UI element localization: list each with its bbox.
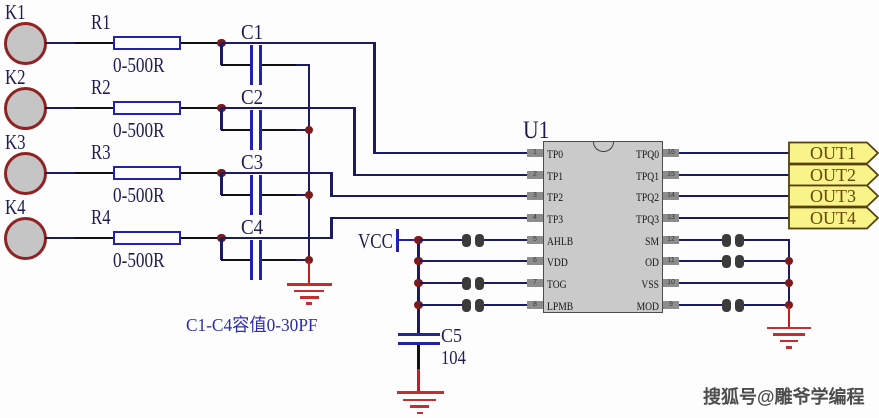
port OUT2: [789, 165, 878, 186]
wire row 4 horizontal: [222, 237, 333, 240]
resistor R1 value 0-500R: [113, 55, 165, 77]
IC U1 pin 6 stub: [527, 257, 543, 265]
wire TOG jumper to pin 7: [484, 282, 528, 285]
wire row 1 horizontal: [222, 42, 376, 45]
IC U1 pin name TP2: [547, 191, 563, 203]
junction C3/ground bus: [305, 191, 314, 200]
IC U1 pin name TP3: [547, 213, 563, 225]
IC U1 pin 5 stub: [527, 236, 543, 244]
resistor R3 value 0-500R: [113, 185, 165, 207]
IC U1 pin 4 stub: [527, 214, 543, 222]
port OUT1: [789, 143, 878, 164]
touch pad K2: [4, 87, 47, 130]
wire junction to C2: [220, 108, 223, 130]
wire K2 to R2: [45, 107, 75, 110]
IC U1 pin name TPQ2: [608, 191, 659, 203]
touch pad K4: [4, 217, 47, 260]
resistor R2 value 0-500R: [113, 120, 165, 142]
wire MOD to jumper: [679, 304, 723, 307]
wire row 3 to pin TP2: [331, 195, 527, 198]
junction VCC/AHLB: [414, 236, 423, 245]
IC U1 designator: [523, 117, 549, 143]
wire row 2 to pin TP1: [355, 174, 528, 177]
capacitor C5: [398, 333, 440, 336]
wire row 2 vertical: [353, 107, 356, 177]
IC U1 pin name VSS: [608, 278, 659, 290]
wire MOD jumper to gnd bus: [744, 304, 790, 307]
IC U1 pin 1 stub: [527, 149, 543, 157]
resistor R4 value 0-500R: [113, 250, 165, 272]
ground symbol GND3 right: [788, 306, 791, 327]
IC U1 pin 3 stub: [527, 192, 543, 200]
capacitor C3 right pin: [262, 194, 296, 197]
IC U1 notch: [593, 142, 614, 152]
power net VCC label: [358, 231, 393, 252]
wire TPQ0 to OUT1: [679, 152, 789, 155]
ground symbol GND2 for C5: [417, 369, 420, 392]
resistor R4 designator: [91, 207, 111, 228]
junction OD/gnd bus: [785, 257, 794, 266]
capacitor C4 right pin: [262, 259, 296, 262]
wire VCC port to bus: [399, 239, 417, 242]
wire VCC to LPMB jumper: [420, 304, 463, 307]
junction VCC/LPMB: [414, 301, 423, 310]
wire TPQ3 to OUT4: [679, 217, 789, 220]
capacitor C1: [250, 45, 253, 85]
capacitor C1 left pin: [221, 64, 251, 67]
touch pad K1: [4, 22, 47, 65]
wire VCC to pin 6 VDD: [420, 260, 528, 263]
svg-text:OUT1: OUT1: [810, 143, 856, 163]
IC U1 pin name AHLB: [547, 235, 573, 247]
wire K1 to R1: [45, 42, 75, 45]
junction node row 2: [217, 104, 226, 113]
capacitor C5 value 104: [441, 348, 466, 368]
wire row 3 vertical: [330, 172, 333, 198]
IC U1 pin 15 stub: [663, 171, 679, 179]
IC U1 pin name TPQ0: [608, 148, 659, 160]
junction C2/ground bus: [305, 126, 314, 135]
junction node row 4: [217, 234, 226, 243]
junction VSS/gnd bus: [785, 279, 794, 288]
wire SM jumper to gnd bus: [744, 239, 790, 242]
wire junction to C1: [220, 43, 223, 65]
resistor R4 right pin: [181, 237, 222, 240]
wire row 2 horizontal: [222, 107, 357, 110]
wire row 1 vertical: [373, 42, 376, 155]
wire C4 to ground bus: [296, 259, 310, 262]
wire C3 to ground bus: [296, 194, 310, 197]
capacitor C3 designator: [241, 152, 263, 173]
jumper J-MOD: [722, 299, 731, 312]
IC U1 pin name LPMB: [547, 300, 573, 312]
jumper J-AHLB: [462, 234, 471, 247]
resistor R1 designator: [91, 12, 111, 33]
resistor R4: [113, 231, 181, 245]
IC U1 pin name TP1: [547, 170, 563, 182]
capacitor C5 designator: [441, 326, 462, 346]
junction C4/ground bus: [305, 256, 314, 265]
wire TPQ2 to OUT3: [679, 195, 789, 198]
touch pad K3: [4, 152, 47, 195]
capacitor C4: [250, 240, 253, 280]
capacitor C2 designator: [241, 87, 263, 108]
IC U1 pin name OD: [608, 256, 659, 268]
jumper J-OD: [722, 255, 731, 268]
IC U1 pin name TPQ3: [608, 213, 659, 225]
capacitor C5 bottom pin: [417, 345, 420, 369]
IC U1 pin name TP0: [547, 148, 563, 160]
wire VCC to TOG jumper: [420, 282, 463, 285]
resistor R2 right pin: [181, 107, 222, 110]
wire row 3 horizontal: [222, 172, 333, 175]
resistor R2: [113, 101, 181, 115]
wire AHLB jumper to pin 5: [484, 239, 528, 242]
resistor R3 left pin: [75, 172, 113, 175]
resistor R1 right pin: [181, 42, 222, 45]
capacitor C3 left pin: [221, 194, 251, 197]
wire row 4 vertical: [330, 217, 333, 240]
wire TPQ1 to OUT2: [679, 174, 789, 177]
capacitor C1 right pin: [262, 64, 296, 67]
ground symbol GND1 for C1-C4: [308, 261, 311, 284]
node K1 label: [5, 2, 26, 23]
junction VCC/TOG: [414, 279, 423, 288]
resistor R2 left pin: [75, 107, 113, 110]
jumper J-SM: [722, 234, 731, 247]
node K2 label: [5, 67, 26, 88]
wire OD to jumper: [679, 260, 723, 263]
wire junction to C3: [220, 173, 223, 195]
wire K4 to R4: [45, 237, 75, 240]
svg-text:OUT4: OUT4: [810, 208, 856, 228]
capacitor C2 left pin: [221, 129, 251, 132]
jumper J-TOG: [462, 277, 471, 290]
VCC bus wire: [417, 240, 420, 334]
port OUT3: [789, 186, 878, 207]
capacitor C1 designator: [241, 22, 263, 43]
right ground bus wire: [788, 240, 791, 306]
resistor R4 left pin: [75, 237, 113, 240]
note C1-C4 capacitance value: [186, 316, 318, 334]
capacitor C4 designator: [241, 217, 263, 238]
IC U1 pin name TPQ1: [608, 170, 659, 182]
wire SM to jumper: [679, 239, 723, 242]
IC U1 pin 12 stub: [663, 236, 679, 244]
capacitor C2 right pin: [262, 129, 296, 132]
capacitor C3: [250, 175, 253, 215]
wire VSS to gnd bus: [679, 282, 790, 285]
node K3 label: [5, 132, 26, 153]
resistor R1: [113, 36, 181, 50]
wire VCC to AHLB jumper: [420, 239, 463, 242]
capacitor C4 left pin: [221, 259, 251, 262]
resistor R3: [113, 166, 181, 180]
junction VCC/VDD: [414, 257, 423, 266]
IC U1 pin 11 stub: [663, 257, 679, 265]
wire junction to C4: [220, 238, 223, 260]
power port VCC bar: [396, 229, 399, 252]
IC U1 pin 8 stub: [527, 301, 543, 309]
capacitor C2: [250, 110, 253, 150]
junction node row 1: [217, 39, 226, 48]
resistor R3 right pin: [181, 172, 222, 175]
IC U1 pin 10 stub: [663, 279, 679, 287]
wire C1 to ground bus: [296, 64, 310, 67]
IC U1 pin name VDD: [547, 256, 568, 268]
wire LPMB jumper to pin 8: [484, 304, 528, 307]
IC U1 pin name MOD: [608, 300, 659, 312]
IC U1 pin 16 stub: [663, 149, 679, 157]
svg-text:OUT3: OUT3: [810, 186, 856, 206]
junction node row 3: [217, 169, 226, 178]
wire row 4 to pin TP3: [331, 217, 527, 220]
ground bus wire: [308, 64, 311, 261]
resistor R1 left pin: [75, 42, 113, 45]
port OUT4: [789, 208, 878, 229]
IC U1 pin 14 stub: [663, 192, 679, 200]
wire K3 to R3: [45, 172, 75, 175]
IC U1 pin 7 stub: [527, 279, 543, 287]
wire OD jumper to gnd bus: [744, 260, 790, 263]
resistor R3 designator: [91, 142, 111, 163]
jumper J-LPMB: [462, 299, 471, 312]
IC U1 pin name SM: [608, 235, 659, 247]
junction MOD/gnd bus: [785, 301, 794, 310]
resistor R2 designator: [91, 77, 111, 98]
IC U1 pin 2 stub: [527, 171, 543, 179]
svg-text:OUT2: OUT2: [810, 165, 856, 185]
watermark text: [703, 388, 865, 406]
IC U1 pin name TOG: [547, 278, 567, 290]
wire C2 to ground bus: [296, 129, 310, 132]
IC U1 body: [543, 141, 663, 313]
wire row 1 to pin TP0: [374, 152, 527, 155]
IC U1 pin 13 stub: [663, 214, 679, 222]
IC U1 pin 9 stub: [663, 301, 679, 309]
node K4 label: [5, 197, 26, 218]
